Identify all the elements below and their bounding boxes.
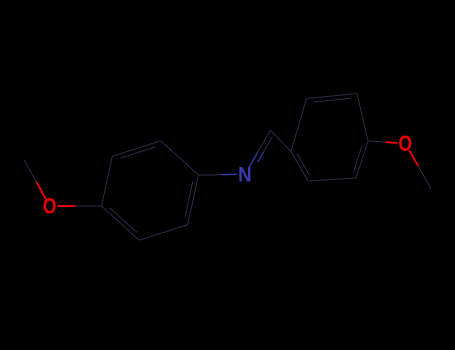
left ring edge V4-V5 [161,141,199,175]
right ring inner double Wtr-Wtl [315,98,350,102]
svg-text:N: N [238,162,252,186]
bond N=CH main line half B [258,130,271,152]
bond C4-N half B [222,173,237,175]
bond N=CH second line blue half [258,152,264,162]
bond W4-O2 half A [368,141,387,142]
svg-text:O: O [43,194,57,219]
left ring edge V1-V2 [102,206,140,240]
left ring edge V5-V6 [112,141,161,157]
bond N=CH second line dark half [264,137,273,152]
left ring inner double V3-V4 [185,182,193,217]
bond O2-CH3b (right methyl) half B [418,166,431,188]
left ring edge V3-V4 [188,175,199,225]
bond CH-W1 (to right ring) half A [270,130,280,141]
bond O2-CH3b (right methyl) half A [410,151,419,166]
right ring edge Wtl-W1 [291,99,307,152]
bond CH3-O1 (left methyl) half A [24,160,37,183]
left ring inner double V5-V6 [121,147,155,158]
svg-text:O: O [399,131,413,156]
bond N=CH main line half A [249,152,257,167]
bond O1-C1 (to left ring) half B [76,205,102,207]
right ring inner double W1-Wbl [297,154,309,175]
right ring edge Wbr-W4 [356,141,368,178]
right ring edge Wbl-Wbr [308,178,356,181]
left ring edge V6-V1 [102,156,113,206]
left ring inner double V1-V2 [110,208,136,232]
right ring inner double Wbr-W4 [354,145,362,171]
bond CH-W1 (to right ring) half B [281,141,291,152]
right ring edge W1-Wbl [291,152,308,182]
bond W4-O2 half B [387,141,397,144]
bond O1-C1 (to left ring) half A [58,205,75,207]
right ring edge W4-Wtr [357,94,368,142]
left ring edge V2-V3 [139,225,187,241]
right ring edge Wtr-Wtl [307,94,358,99]
bond C4-N half A [199,174,222,176]
bond CH3-O1 (left methyl) half B [37,183,46,199]
